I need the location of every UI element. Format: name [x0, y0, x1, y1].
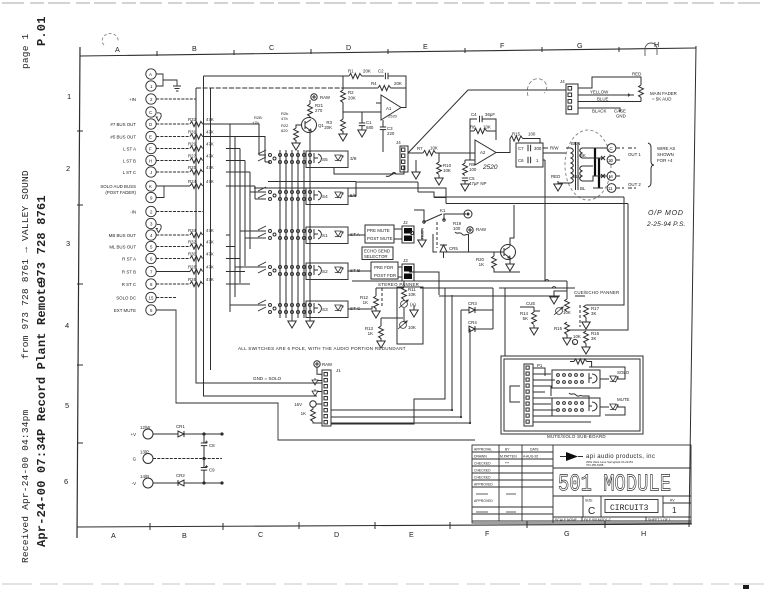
resistor R17 3K + gnd — [584, 305, 589, 317]
strip separators — [582, 517, 646, 521]
wire second bus y88 — [196, 87, 343, 89]
wires panner internals — [376, 288, 404, 322]
switch S1 contacts — [258, 226, 312, 240]
svg-text:WIRE AS: WIRE AS — [657, 146, 675, 151]
svg-text:47b: 47b — [281, 116, 288, 121]
out pin 11 — [607, 184, 616, 193]
svg-text:J4: J4 — [560, 79, 565, 84]
pin D (#7 BUS OUT) + resistor R33 — [146, 119, 156, 129]
svg-text:ABCDEFGH: ABCDEFGH — [111, 529, 646, 540]
ground below K1 area — [418, 237, 426, 247]
svg-text:FILE 501MOD1-C: FILE 501MOD1-C — [584, 518, 612, 522]
A1 output wire — [401, 76, 406, 108]
nested routing vertical 6 — [226, 186, 266, 199]
svg-text:CR1: CR1 — [176, 424, 185, 429]
svg-text:2-25-94 P.S.: 2-25-94 P.S. — [646, 221, 686, 228]
main fader pot — [639, 85, 644, 97]
svg-text:BY: BY — [505, 448, 510, 452]
svg-text:ML BUS OUT: ML BUS OUT — [109, 245, 136, 250]
LED ST A — [335, 231, 343, 238]
rail steps from matrix — [418, 192, 446, 204]
resistor R21 270 — [309, 100, 311, 104]
mute resistor mid — [569, 393, 582, 396]
svg-text:20K: 20K — [394, 81, 402, 86]
resistor R4 20K feedback — [343, 87, 378, 89]
svg-text:10K: 10K — [443, 168, 451, 173]
svg-text:47K: 47K — [206, 154, 214, 159]
svg-text:SCALE NONE: SCALE NONE — [555, 518, 578, 522]
nested routing vertical 4 — [226, 161, 266, 267]
svg-text:L ST A: L ST A — [123, 147, 136, 152]
svg-text:J1: J1 — [336, 368, 341, 373]
svg-text:K1: K1 — [440, 208, 446, 213]
svg-text:***: *** — [505, 462, 510, 466]
resistor R9 100 — [464, 160, 466, 163]
svg-text:APPROVED: APPROVED — [474, 499, 493, 503]
svg-text:123456: 123456 — [64, 92, 71, 486]
svg-text:MUTE: MUTE — [617, 397, 630, 402]
bus vertical +IN line — [196, 88, 322, 383]
mute/solo sub-board inner box — [504, 359, 640, 431]
pin 5 (EXT MUTE) — [146, 305, 156, 315]
solo contacts — [557, 374, 560, 377]
svg-text:RED: RED — [632, 72, 641, 77]
out pin C — [607, 144, 616, 153]
nested routing vertical 3 — [226, 149, 266, 284]
R19 squiggle — [455, 232, 468, 235]
svg-text:R/W: R/W — [550, 146, 559, 151]
YELLOW wire to wiper — [578, 94, 634, 97]
wire row D into matrix — [203, 124, 266, 155]
BLACK case gnd wire — [578, 108, 620, 112]
svg-text:SELECTOR: SELECTOR — [364, 254, 388, 259]
svg-text:S1: S1 — [322, 233, 328, 238]
svg-text:4-AUG-92: 4-AUG-92 — [523, 455, 538, 459]
svg-text:J: J — [150, 170, 152, 175]
bottom strip divider — [553, 516, 691, 518]
svg-text:100: 100 — [469, 167, 477, 172]
pot B 10K — [398, 321, 407, 329]
svg-text:MAIN FADER: MAIN FADER — [650, 91, 677, 96]
svg-text:BLACK: BLACK — [592, 109, 606, 114]
left ruler ticks — [77, 131, 83, 443]
RED primary return + gnd — [558, 182, 566, 183]
svg-text:#5 BUS OUT: #5 BUS OUT — [110, 135, 136, 140]
bottom ruler ticks — [150, 521, 605, 530]
top ruler ticks — [157, 47, 619, 56]
op-amp A2 2520 — [475, 140, 496, 165]
pin 1 — [146, 81, 156, 91]
wire pin2 to bus — [156, 88, 196, 99]
rev box — [663, 496, 691, 517]
svg-text:36pF: 36pF — [485, 112, 495, 117]
capacitor C6 1 — [528, 157, 531, 163]
doodle curl near H — [645, 43, 657, 56]
power pin 14/B — [143, 478, 153, 488]
mute/solo sub-board outer box — [501, 356, 643, 434]
connector P1 — [524, 364, 533, 426]
svg-text:A1: A1 — [386, 106, 392, 111]
svg-text:APPROVAL: APPROVAL — [474, 448, 492, 452]
svg-text:RAW: RAW — [322, 362, 333, 367]
resistor R13 1K + gnd — [380, 318, 382, 326]
pin J (L ST C) + resistor R25 — [146, 167, 156, 177]
resistor R2 20K — [342, 76, 344, 90]
svg-text:OUT 2: OUT 2 — [628, 182, 641, 187]
wire row E into matrix — [203, 137, 270, 163]
scan edge noise top — [2, 2, 766, 4]
wire R1 to C2 — [362, 75, 384, 77]
svg-text:(A): (A) — [410, 302, 416, 307]
svg-text:F: F — [149, 147, 152, 152]
slide switch J3 — [402, 264, 414, 281]
out pin M — [607, 172, 616, 181]
wire-as-shown bracket — [648, 143, 654, 187]
diode CR3 — [461, 307, 493, 313]
P1 pin squares — [526, 366, 529, 369]
svg-text:2: 2 — [150, 210, 153, 215]
svg-text:S5: S5 — [322, 157, 328, 162]
svg-text:1K: 1K — [368, 331, 373, 336]
svg-text:APPROVED: APPROVED — [474, 483, 493, 487]
svg-text:CR4: CR4 — [468, 320, 477, 325]
svg-text:C: C — [149, 110, 152, 115]
Q2 emitter gnd — [509, 258, 511, 262]
hole punch doodle top left — [102, 34, 118, 45]
svg-text:#7 BUS OUT: #7 BUS OUT — [110, 122, 136, 127]
svg-text:SHOWN: SHOWN — [657, 152, 674, 157]
svg-text:S2: S2 — [322, 269, 328, 274]
signature dashes — [476, 494, 516, 512]
svg-text:R30: R30 — [188, 252, 197, 257]
wires pre/post fdr to J3 — [398, 267, 402, 277]
resistor R7 10K — [423, 150, 436, 155]
RAW pin circle — [467, 227, 473, 233]
switch S1 actuator — [314, 229, 321, 239]
sub-board wire fan — [533, 368, 591, 422]
power pin 13/P — [143, 454, 153, 464]
svg-text:12/W: 12/W — [140, 425, 151, 430]
solo LED — [610, 376, 618, 383]
svg-text:RED: RED — [551, 174, 560, 179]
pin F (L ST A) + resistor R29 — [146, 143, 156, 153]
svg-text:SOLO: SOLO — [617, 370, 630, 375]
svg-text:SOLO AUD BUSS: SOLO AUD BUSS — [100, 184, 136, 189]
svg-text:100: 100 — [453, 226, 461, 231]
svg-text:Received Apr-24-00 04:34pmfrom: Received Apr-24-00 04:34pmfrom 973 728 8… — [20, 33, 31, 563]
svg-text:CR3: CR3 — [468, 301, 477, 306]
svg-text:703 455-8188: 703 455-8188 — [586, 463, 604, 467]
svg-text:R ST B: R ST B — [122, 270, 136, 275]
switch S3 actuator — [314, 303, 321, 313]
svg-text:47K: 47K — [206, 277, 214, 282]
svg-text:14/B: 14/B — [140, 474, 149, 479]
switch S2 row box — [306, 263, 348, 280]
diode CR1 — [153, 431, 222, 437]
svg-text:DRAWN: DRAWN — [474, 455, 487, 459]
capacitor C2 — [385, 73, 388, 79]
pin C arrow — [156, 113, 161, 121]
wire R2 top to R1 node — [342, 75, 344, 77]
transformer secondary — [580, 148, 596, 181]
matrix column 5 — [303, 150, 305, 318]
RAW circle at J1 — [314, 361, 320, 367]
title divider — [553, 495, 691, 497]
svg-text:BLUE: BLUE — [597, 97, 609, 102]
mute contacts — [557, 402, 560, 405]
C7/C6 box — [516, 143, 543, 167]
svg-text:270: 270 — [315, 108, 323, 113]
transistor Q1 — [302, 118, 317, 133]
svg-text:H: H — [149, 159, 152, 164]
svg-text:R32: R32 — [188, 240, 197, 245]
wire EXT MUTE to J1 route — [156, 310, 475, 440]
svg-text:C8: C8 — [209, 443, 215, 448]
bus vertical dashed feed — [210, 88, 212, 370]
CR3/CR4 right vertical — [492, 288, 494, 329]
vertical rail x461 — [460, 310, 462, 417]
svg-text:47K: 47K — [206, 142, 214, 147]
svg-text:10K: 10K — [408, 292, 416, 297]
svg-text:EXT MUTE: EXT MUTE — [114, 308, 136, 313]
wire S4 output row to right bus — [348, 182, 446, 197]
switch S4 actuator — [314, 190, 321, 200]
svg-text:L ST C: L ST C — [123, 170, 136, 175]
svg-text:SOLO DC: SOLO DC — [116, 296, 136, 301]
svg-text:OUT 1: OUT 1 — [628, 152, 641, 157]
resistor R20 1K — [493, 252, 495, 256]
wire SOLO DC — [156, 297, 176, 299]
wire S1 out to pre mute box — [348, 234, 365, 236]
nested routing vertical 1 — [226, 124, 266, 312]
svg-text:2520: 2520 — [482, 164, 498, 171]
svg-text:ECHO SEND: ECHO SEND — [364, 249, 390, 254]
svg-text:SHEET 1 OF 1: SHEET 1 OF 1 — [648, 518, 671, 522]
vertical rail x470 — [469, 329, 471, 423]
svg-text:FOR +4: FOR +4 — [657, 158, 673, 163]
pin A — [146, 69, 156, 79]
connector J4 module — [400, 146, 408, 172]
svg-text:R ST C: R ST C — [122, 282, 136, 287]
ground in panner — [410, 307, 418, 317]
approval table rows — [472, 452, 691, 521]
svg-text:5: 5 — [150, 308, 153, 313]
svg-text:R24: R24 — [188, 179, 197, 184]
matrix column 3 — [291, 150, 293, 318]
svg-text:CR5: CR5 — [449, 246, 458, 251]
svg-text:15: 15 — [149, 296, 154, 301]
op-amp A1 — [381, 95, 401, 120]
svg-text:1: 1 — [536, 158, 539, 163]
svg-text:PRE MUTE: PRE MUTE — [367, 228, 390, 233]
transistor Q2 — [501, 245, 516, 260]
svg-text:BRN: BRN — [571, 141, 580, 146]
ground at J4 — [412, 169, 420, 179]
svg-text:47K: 47K — [206, 252, 214, 257]
svg-text:J2: J2 — [403, 220, 408, 225]
stub R ST B — [226, 271, 245, 273]
pin 15 (SOLO DC) — [146, 292, 156, 302]
svg-text:R8: R8 — [470, 125, 476, 130]
resistor R12 1K + gnd — [375, 288, 377, 296]
svg-text:R1: R1 — [348, 69, 354, 74]
svg-text:5: 5 — [150, 245, 153, 250]
svg-text:+V: +V — [131, 432, 137, 437]
right rail 1 down to cue panner — [586, 197, 624, 305]
svg-text:BL: BL — [580, 186, 586, 191]
mute LED — [610, 404, 618, 411]
svg-text:10K: 10K — [573, 334, 581, 339]
BLUE wire to fader bottom — [578, 101, 641, 103]
CR5 frame wires — [433, 234, 469, 258]
svg-text:CR2: CR2 — [176, 473, 185, 478]
svg-text:M: M — [609, 174, 613, 179]
svg-text:S4: S4 — [322, 194, 328, 199]
svg-text:PRE FDR: PRE FDR — [374, 265, 393, 270]
svg-text:47μF NP: 47μF NP — [469, 181, 486, 186]
wire box to transformer — [543, 148, 566, 153]
svg-text:L: L — [574, 341, 576, 345]
switch S2 contacts — [258, 262, 312, 276]
diode CR2 — [153, 480, 222, 486]
capacitor C3 220 — [382, 120, 384, 127]
capacitor C1 680 to ground — [361, 112, 363, 123]
nested routing vertical 2 — [226, 137, 266, 298]
svg-text:BK: BK — [580, 153, 586, 158]
wire C2 to fb node — [388, 76, 406, 88]
api logo arrow — [566, 452, 578, 461]
X mark 2 — [601, 174, 605, 178]
pot A — [399, 300, 408, 308]
svg-text:R7: R7 — [417, 146, 423, 151]
svg-text:47K: 47K — [206, 117, 214, 122]
pin 6 (R ST A) + resistor R30 — [146, 253, 156, 263]
svg-text:= 5K AUD: = 5K AUD — [652, 97, 671, 102]
resistor R11 10K — [403, 281, 405, 287]
svg-text:(POST FADER): (POST FADER) — [105, 190, 136, 195]
stub R ST C — [226, 283, 250, 285]
svg-text:CHECKED: CHECKED — [474, 462, 491, 466]
svg-text:10: 10 — [608, 158, 613, 163]
circuit3 box — [605, 500, 658, 513]
wires pre/post mute to J2 — [394, 229, 402, 239]
svg-text:RAW: RAW — [320, 95, 331, 100]
echo send selector box — [362, 247, 393, 260]
resistor R15b lower — [565, 322, 570, 334]
svg-text:J4: J4 — [396, 140, 401, 145]
wire S5 output to fader send — [334, 165, 404, 174]
svg-text:4: 4 — [150, 233, 153, 238]
svg-text:R25: R25 — [188, 165, 197, 170]
wire G — [153, 458, 222, 460]
approval table verticals — [499, 445, 553, 523]
svg-text:8: 8 — [150, 282, 153, 287]
wire box down long — [543, 160, 545, 281]
J1 gnd arrow 1 — [312, 378, 318, 385]
solo switch cluster box — [552, 370, 600, 388]
transformer primary — [566, 148, 573, 183]
pin 2 (-IN) — [146, 206, 156, 216]
matrix column 6 — [309, 133, 311, 318]
wire Q1 emitter to matrix — [309, 133, 311, 151]
svg-text:13/P: 13/P — [140, 450, 149, 455]
switch rows — [258, 150, 361, 318]
svg-text:CIRCUIT3: CIRCUIT3 — [610, 504, 649, 513]
matrix column 1 — [279, 150, 281, 318]
vertical from J3 — [409, 272, 439, 295]
pin 9 — [146, 192, 156, 202]
svg-text:P1: P1 — [537, 363, 543, 368]
resistor R15 100 — [510, 136, 523, 141]
svg-text:20K: 20K — [324, 125, 332, 130]
svg-text:100: 100 — [528, 132, 536, 137]
transformer T1 dashed outline — [565, 130, 611, 200]
LED ST C — [335, 305, 343, 312]
squiggle hop wire — [386, 174, 396, 177]
svg-text:C4: C4 — [471, 112, 477, 117]
pre mute / post mute box — [365, 225, 394, 243]
svg-text:J3: J3 — [403, 258, 408, 263]
svg-text:RV: RV — [670, 499, 675, 503]
pin 8 (R ST C) + resistor R26 — [146, 279, 156, 289]
switch S1 row box — [306, 227, 348, 244]
sub-board top resistor — [570, 361, 574, 363]
svg-text:7: 7 — [150, 270, 153, 275]
svg-text:9: 9 — [150, 196, 153, 201]
bus vertical R1 feed — [204, 76, 318, 396]
J1 wire rail b — [331, 416, 461, 418]
dashed link — [381, 288, 383, 306]
scan edge noise bottom — [2, 583, 766, 585]
svg-text:R31: R31 — [188, 130, 197, 135]
matrix column 2 — [285, 150, 287, 318]
wire pin A to pin 1 bracket — [156, 74, 171, 86]
svg-text:620: 620 — [281, 128, 288, 133]
svg-text:1K: 1K — [363, 300, 368, 305]
pin E (#5 BUS OUT) + resistor R31 — [146, 131, 156, 141]
junction dots power — [203, 433, 205, 435]
small circle o — [410, 231, 413, 234]
svg-text:POST MUTE: POST MUTE — [367, 236, 393, 241]
stub ML bus out — [226, 246, 235, 248]
chassis ground hatch — [171, 80, 181, 91]
dashed K1 coil link — [436, 222, 438, 248]
svg-text:A2: A2 — [480, 150, 486, 155]
svg-text:R29: R29 — [188, 142, 197, 147]
svg-text:R27: R27 — [188, 154, 197, 159]
sub-board left bracket — [510, 386, 520, 402]
svg-text:47K: 47K — [206, 130, 214, 135]
border frame: top ruler line — [80, 48, 696, 56]
switch S5 row box — [306, 151, 348, 168]
wire S2 out to pre fdr box — [348, 270, 371, 272]
resistor R1 20K — [349, 73, 362, 78]
svg-text:C2: C2 — [378, 69, 384, 74]
svg-text:47K: 47K — [206, 228, 214, 233]
J1 gnd arrow 2 — [312, 389, 318, 396]
svg-text:+IN: +IN — [129, 97, 136, 102]
wire R2 bottom to A1 minus — [343, 102, 381, 112]
switch S5 actuator — [314, 153, 321, 163]
RAW supply circle — [311, 94, 317, 100]
svg-text:10K: 10K — [563, 310, 571, 315]
mid horizontal rail y288 — [420, 288, 575, 356]
svg-text:GND: GND — [616, 114, 626, 119]
wire C4 to out — [482, 119, 496, 140]
capacitor C4 36pF — [480, 116, 483, 122]
A2 feedback node wire — [465, 119, 477, 160]
border frame: left vertical — [77, 47, 80, 538]
